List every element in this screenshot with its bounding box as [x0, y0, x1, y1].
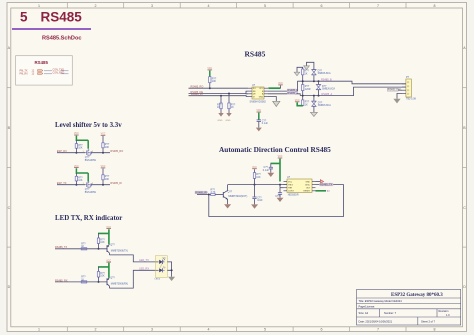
svg-text:Date: 2021/05/04 10/06/2: Date: 2021/05/04 10/06/2021: [359, 319, 393, 323]
svg-text:8: 8: [434, 328, 436, 332]
svg-text:Page/License:: Page/License:: [359, 304, 376, 308]
svg-text:D: D: [8, 285, 11, 289]
power VCC3.3 shifter1 left: [74, 133, 79, 135]
ground GND R2: [218, 113, 224, 122]
svg-text:MMBT3906(TX): MMBT3906(TX): [111, 250, 128, 253]
resistor R11 4.7K series: [211, 188, 224, 195]
svg-text:RS485_TX: RS485_TX: [320, 184, 333, 187]
svg-text:VCC: VCC: [74, 133, 79, 135]
svg-text:ESP32 Gateway 80*60.3: ESP32 Gateway 80*60.3: [391, 293, 443, 298]
svg-text:Sheet 2 of 7: Sheet 2 of 7: [421, 319, 436, 323]
svg-text:7: 7: [377, 4, 379, 8]
label RS485_TX out: [319, 183, 333, 186]
svg-text:4.7K: 4.7K: [211, 191, 216, 194]
svg-text:10K: 10K: [100, 241, 105, 244]
svg-text:LED_RX: LED_RX: [139, 267, 149, 270]
IC U2 NE555: [284, 176, 316, 197]
svg-text:10K: 10K: [100, 275, 105, 278]
svg-text:1K: 1K: [81, 245, 84, 248]
power VCC5 shifter2 right: [101, 166, 106, 168]
wire green shifter1 gate: [76, 136, 89, 149]
label RS485_RX input: [195, 191, 207, 194]
svg-text:DISC: DISC: [305, 184, 310, 186]
svg-text:RS485_B: RS485_B: [321, 78, 332, 81]
svg-text:VCC: VCC: [74, 166, 79, 168]
svg-text:D: D: [463, 285, 466, 289]
ground C3: [251, 204, 258, 208]
wire collector TX to LED: [109, 255, 155, 262]
IC U1 transceiver: [248, 84, 268, 103]
wire R1 to RO net: [209, 83, 211, 89]
resistor R14 1K series TX: [81, 243, 87, 250]
svg-text:RO: RO: [253, 88, 256, 90]
resistor R5 120R termination: [302, 81, 311, 95]
wire green pullup A: [297, 102, 303, 105]
resistor R9 10K: [75, 173, 83, 185]
svg-text:VCC: VCC: [278, 83, 283, 85]
node junction LED gnd: [171, 269, 173, 271]
svg-text:0.1uF: 0.1uF: [262, 122, 269, 125]
node junction pin2: [279, 184, 281, 186]
wire green VCC stub: [209, 71, 211, 77]
svg-text:CONT: CONT: [288, 191, 294, 193]
svg-text:GND: GND: [226, 120, 231, 122]
svg-text:RS485_GND: RS485_GND: [388, 90, 402, 92]
resistor R8 10K: [102, 136, 110, 153]
wire TRIG-THR tie: [279, 185, 281, 188]
power VCC LED RX: [106, 260, 111, 262]
svg-text:Q??: Q??: [110, 277, 115, 280]
capacitor C2 0.1uF bypass 555: [263, 163, 273, 172]
wire green VCC 555: [271, 159, 281, 182]
svg-text:1K: 1K: [81, 278, 84, 281]
svg-text:1: 1: [83, 151, 84, 153]
svg-text:10K: 10K: [105, 146, 110, 149]
svg-text:1K: 1K: [305, 103, 308, 106]
power VCC bypass: [256, 110, 261, 112]
diode D2 TVS A-B: [316, 81, 335, 95]
svg-text:VCC: VCC: [259, 88, 264, 90]
svg-text:5V: 5V: [327, 190, 330, 193]
svg-text:4: 4: [208, 4, 210, 8]
svg-text:ESP_TX: ESP_TX: [57, 182, 67, 185]
resistor R4 pulldown B: [297, 67, 310, 81]
connector P1: [402, 76, 417, 100]
svg-text:VCC: VCC: [101, 134, 106, 136]
svg-text:SMBJ6.8CA: SMBJ6.8CA: [318, 72, 331, 75]
svg-text:ESP_RX: ESP_RX: [57, 150, 67, 153]
wire net RS485_RO: [189, 87, 249, 89]
ground D1: [304, 66, 310, 70]
ground pulldown B: [294, 72, 300, 76]
svg-text:VCC: VCC: [106, 227, 111, 229]
svg-text:5: 5: [264, 328, 266, 332]
capacitor C3 10nF: [252, 185, 263, 205]
svg-text:LED2: LED2: [155, 279, 161, 281]
svg-text:Q??: Q??: [110, 244, 115, 247]
transistor Q2 BSS138: [83, 181, 97, 194]
svg-text:VCC: VCC: [295, 100, 300, 102]
resistor R15 10K pullup: [97, 267, 105, 282]
svg-text:10K: 10K: [78, 146, 83, 149]
wire pin3 label stub: [387, 88, 402, 91]
svg-text:BSS138W: BSS138W: [85, 191, 97, 194]
resistor R13 10K pullup: [97, 233, 105, 248]
power VCC pullup A: [295, 100, 300, 102]
wire green shifter2 gate: [76, 168, 89, 181]
svg-text:C??: C??: [275, 195, 280, 198]
svg-text:Q??: Q??: [228, 191, 233, 194]
svg-text:BSS138W: BSS138W: [85, 159, 97, 162]
wire output shifter2: [92, 184, 111, 186]
page header title "5 RS485": [12, 10, 91, 42]
resistor R12 10K: [253, 169, 261, 184]
wire bus B: [297, 81, 406, 84]
wire green LED TX: [98, 229, 110, 244]
power VCC 555: [278, 156, 283, 158]
svg-text:1: 1: [38, 4, 40, 8]
wire pin GND noconnect: [316, 180, 324, 184]
svg-text:Title: ESP32 Gateway Model CE: Title: ESP32 Gateway Model CE4024: [359, 299, 403, 303]
ground LED: [168, 277, 175, 281]
svg-text:GND: GND: [218, 120, 223, 122]
svg-text:1.0: 1.0: [446, 313, 450, 317]
svg-text:GND: GND: [306, 181, 311, 183]
wire pin4 to ground: [397, 93, 402, 98]
svg-text:6: 6: [321, 4, 323, 8]
svg-text:1K: 1K: [231, 106, 234, 109]
ground C2: [267, 173, 274, 177]
diode D3 TVS: [312, 96, 332, 113]
svg-text:TRIG: TRIG: [288, 184, 293, 186]
svg-text:5: 5: [264, 4, 266, 8]
wire output shifter1: [92, 152, 111, 154]
svg-text:1K: 1K: [305, 72, 308, 75]
svg-text:CON_RXD: CON_RXD: [53, 72, 65, 75]
svg-text:2: 2: [95, 4, 97, 8]
transistor Q3 MMBT3904: [223, 185, 247, 205]
node junction DE pulldown: [228, 93, 230, 95]
svg-text:RS485_RX: RS485_RX: [55, 279, 68, 282]
svg-text:SMBJ6.8CA: SMBJ6.8CA: [322, 88, 335, 91]
svg-text:RS485_RO: RS485_RO: [110, 150, 123, 153]
svg-text:VCC: VCC: [278, 156, 283, 158]
svg-text:10K: 10K: [256, 176, 261, 179]
wire input ADC: [197, 194, 211, 196]
svg-text:10nF: 10nF: [257, 199, 263, 202]
node junction shifter1 out: [102, 152, 104, 154]
ground D3: [310, 112, 317, 116]
svg-text:RS485_RX: RS485_RX: [195, 192, 208, 195]
node junction DI pulldown: [220, 95, 222, 97]
ground bypass: [256, 128, 262, 132]
svg-text:VCC: VCC: [207, 68, 212, 70]
node junction base RX: [98, 281, 100, 283]
capacitor C1 0.1uF: [257, 119, 269, 127]
node junction RO: [209, 87, 211, 89]
svg-text:Size: A4: Size: A4: [359, 311, 369, 315]
svg-text:RESET: RESET: [304, 191, 311, 193]
power VCC LED TX: [106, 227, 111, 229]
power VCC U1: [278, 83, 283, 88]
label RS485_A stub: [287, 92, 296, 95]
wire green VCC of U1: [268, 87, 280, 89]
node junction shifter1: [75, 152, 77, 154]
svg-text:5: 5: [20, 10, 28, 25]
wire input shifter1: [57, 152, 85, 154]
svg-text:10K: 10K: [105, 178, 110, 181]
svg-text:PM_RX: PM_RX: [20, 72, 29, 75]
power VCC3.3 shifter2 left: [74, 166, 79, 168]
svg-text:VCC: VCC: [288, 181, 293, 183]
svg-text:RS485_A: RS485_A: [287, 92, 298, 95]
wire LED cathodes to ground: [167, 262, 171, 277]
svg-text:C: C: [463, 206, 466, 210]
svg-text:MMBT3906(RX): MMBT3906(RX): [111, 283, 128, 286]
power VCC pullup RO: [207, 68, 212, 70]
svg-text:4: 4: [208, 328, 210, 332]
svg-text:C: C: [8, 206, 11, 210]
wire input shifter2: [57, 184, 85, 186]
wire B stub: [268, 81, 297, 91]
resistor R2 pulldown: [217, 96, 222, 113]
ground connector: [393, 99, 400, 104]
svg-text:RS485_RO: RS485_RO: [191, 86, 204, 89]
transistor Q5 MMBT3906 RX: [107, 277, 128, 288]
resistor R6 pullup A: [302, 96, 310, 107]
wire green RESET: [316, 190, 327, 192]
svg-text:3: 3: [151, 4, 153, 8]
resistor R1 10K: [209, 77, 217, 84]
power VCC5 shifter1 right: [101, 134, 106, 136]
svg-text:SN65HVD3082: SN65HVD3082: [250, 100, 267, 103]
wire green LED RX: [98, 263, 110, 278]
svg-text:VCC: VCC: [252, 167, 257, 169]
svg-text:0.1uF: 0.1uF: [263, 169, 270, 172]
resistor R16 1K series RX: [81, 276, 87, 283]
node junction shifter2 out: [102, 184, 104, 186]
transistor Q4 MMBT3906 TX: [107, 244, 128, 255]
wire collector RX to LED: [109, 270, 155, 288]
resistor R7 10K: [75, 140, 83, 152]
svg-text:RS485.SchDoc: RS485.SchDoc: [42, 36, 81, 42]
node junction base TX: [98, 248, 100, 250]
svg-text:Revision: Revision: [439, 309, 450, 313]
capacitor C4 10nF CONT: [275, 188, 282, 198]
wire net RS485_DI: [189, 95, 249, 98]
resistor R10 10K: [102, 169, 110, 185]
svg-text:7: 7: [377, 328, 379, 332]
svg-text:1: 1: [83, 183, 84, 185]
svg-text:THR: THR: [288, 188, 293, 190]
svg-text:RS485: RS485: [41, 10, 83, 25]
sheet symbol RS485 preview box: [16, 56, 73, 85]
diode D1 TVS: [307, 62, 332, 81]
svg-text:120R: 120R: [305, 88, 311, 91]
resistor R3 pulldown: [228, 94, 236, 114]
svg-text:RS485_A: RS485_A: [322, 93, 333, 96]
ground Q3: [224, 204, 231, 208]
svg-text:RS485_TX: RS485_TX: [55, 246, 68, 249]
svg-text:1: 1: [38, 328, 40, 332]
transistor Q1 BSS138: [83, 149, 97, 162]
svg-text:Number: 7: Number: 7: [384, 311, 397, 315]
svg-text:3: 3: [151, 328, 153, 332]
wire collector line: [228, 184, 287, 186]
svg-text:8: 8: [434, 4, 436, 8]
wire input RX: [55, 281, 107, 283]
svg-text:RS485: RS485: [245, 49, 266, 58]
node junction loop left: [208, 194, 210, 196]
svg-text:10K: 10K: [212, 80, 217, 83]
svg-text:Level shifter 5v to 3.3v: Level shifter 5v to 3.3v: [55, 122, 122, 129]
power VCC R12: [252, 167, 257, 169]
node junction shifter2: [75, 184, 77, 186]
header underline: [12, 28, 91, 30]
wire A stub: [268, 94, 300, 96]
svg-text:GND: GND: [259, 96, 264, 98]
wire net RS485_DE: [189, 91, 249, 94]
svg-text:RS485: RS485: [35, 60, 49, 65]
wire bus A: [300, 87, 406, 96]
node junctions bus: [302, 80, 304, 82]
svg-text:VCC: VCC: [256, 110, 261, 112]
svg-text:2: 2: [95, 328, 97, 332]
svg-text:MMBT3904(SOT): MMBT3904(SOT): [228, 195, 247, 198]
svg-text:LED_TX: LED_TX: [139, 259, 149, 262]
wire input TX: [55, 248, 107, 250]
wire green bypass: [258, 113, 260, 120]
svg-text:VCC: VCC: [101, 166, 106, 168]
wire GND stub U1: [268, 97, 276, 102]
svg-text:SMBJ6.8CA: SMBJ6.8CA: [318, 104, 331, 107]
label RS485_B stub: [287, 89, 296, 92]
svg-text:10K: 10K: [78, 179, 83, 182]
svg-text:1K: 1K: [217, 106, 220, 109]
svg-text:RS485_DI: RS485_DI: [191, 93, 203, 96]
ground U1: [273, 101, 280, 106]
svg-text:LED TX, RX indicator: LED TX, RX indicator: [55, 215, 122, 222]
node junction R12: [254, 184, 256, 186]
svg-text:RS485_DI: RS485_DI: [110, 182, 122, 185]
svg-text:6: 6: [321, 328, 323, 332]
ground C4: [277, 198, 284, 202]
svg-text:TB2-5.08: TB2-5.08: [406, 97, 417, 100]
wire OUT to loop: [209, 185, 344, 217]
title block: [357, 290, 461, 326]
svg-text:VCC: VCC: [106, 260, 111, 262]
svg-text:Automatic Direction Control RS: Automatic Direction Control RS485: [219, 145, 331, 154]
svg-text:NE555DR: NE555DR: [288, 194, 299, 197]
LED D4 dual package: [155, 256, 168, 281]
ground GND R3: [226, 113, 232, 122]
